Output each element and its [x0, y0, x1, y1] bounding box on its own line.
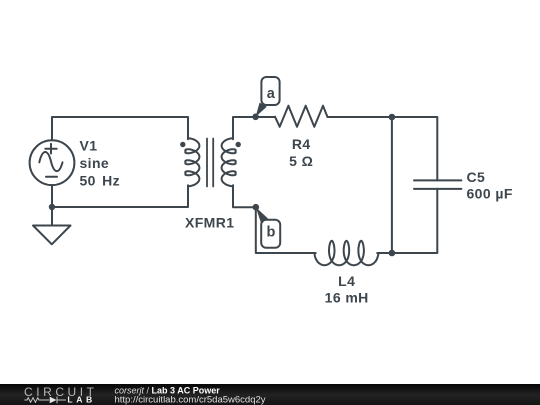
- wire node b down to inductor: [256, 207, 316, 253]
- svg-text:R4: R4: [292, 136, 311, 152]
- svg-text:XFMR1: XFMR1: [185, 215, 234, 231]
- wire ground stem: [51, 207, 53, 226]
- node a flag: [256, 77, 280, 117]
- junction dot bottom right: [389, 250, 396, 257]
- junction dot top right: [389, 114, 396, 121]
- footer title text: [115, 385, 266, 405]
- transformer XFMR1 primary winding: [185, 138, 199, 186]
- wire top-left loop: [52, 117, 188, 140]
- resistor R4: [275, 106, 327, 127]
- svg-text:5 Ω: 5 Ω: [289, 153, 313, 169]
- transformer XFMR1 secondary winding: [222, 138, 236, 186]
- wire V1 bottom lead: [51, 185, 53, 207]
- junction dot node b: [253, 204, 260, 211]
- svg-text:b: b: [266, 225, 275, 241]
- svg-text:http://circuitlab.com/cr5da5w6: http://circuitlab.com/cr5da5w6cdq2y: [115, 394, 266, 405]
- capacitor C5: [414, 180, 461, 189]
- svg-text:16 mH: 16 mH: [325, 290, 369, 306]
- voltage source V1: [30, 140, 75, 185]
- label R4 5 ohm: [289, 136, 313, 169]
- footer bar: [0, 384, 540, 405]
- wire inductor to capacitor bottom: [377, 189, 437, 253]
- node b flag: [256, 207, 280, 248]
- transformer XFMR1 polarity dot secondary: [236, 142, 241, 147]
- wire resistor to capacitor top: [327, 117, 437, 180]
- wire secondary top to resistor: [233, 117, 275, 139]
- svg-text:a: a: [267, 86, 276, 102]
- wire bottom-left loop: [52, 185, 188, 207]
- logo CIRCUIT LAB: [24, 385, 98, 404]
- label L4 16 mH: [325, 273, 369, 306]
- svg-text:sine: sine: [80, 155, 110, 171]
- svg-text:LAB: LAB: [67, 394, 95, 404]
- svg-text:C5: C5: [467, 169, 486, 185]
- transformer XFMR1 polarity dot primary: [180, 142, 185, 147]
- label C5 600 uF: [467, 169, 513, 202]
- ground: [33, 226, 71, 245]
- wire middle vertical: [391, 117, 393, 253]
- junction dot below V1: [49, 204, 55, 210]
- svg-text:50 Hz: 50 Hz: [80, 173, 121, 189]
- svg-text:600 µF: 600 µF: [467, 186, 513, 202]
- svg-text:V1: V1: [80, 137, 98, 153]
- svg-text:L4: L4: [338, 273, 355, 289]
- inductor L4: [314, 241, 378, 265]
- label V1 sine 50 Hz: [80, 137, 121, 188]
- transformer XFMR1 core: [207, 139, 213, 187]
- wire secondary bottom to node b: [233, 185, 256, 207]
- junction dot node a: [252, 114, 259, 121]
